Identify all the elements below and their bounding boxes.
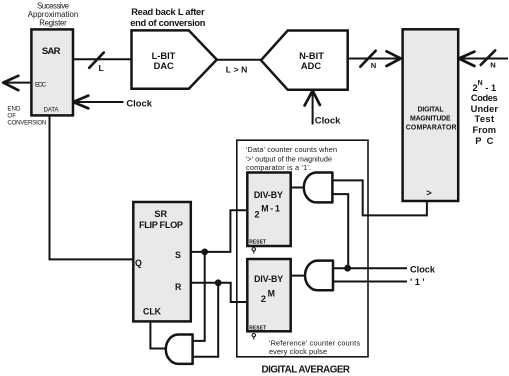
- svg-text:RESET: RESET: [249, 240, 266, 246]
- svg-text:DIGITAL AVERAGER: DIGITAL AVERAGER: [262, 364, 351, 375]
- svg-text:M - 1: M - 1: [261, 204, 280, 214]
- svg-text:L > N: L > N: [226, 64, 248, 74]
- svg-text:N: N: [490, 61, 495, 70]
- svg-text:L: L: [99, 63, 104, 73]
- svg-text:Under: Under: [471, 104, 499, 114]
- svg-text:DATA: DATA: [44, 107, 60, 114]
- svg-text:comparator is a '1'.: comparator is a '1'.: [246, 163, 311, 172]
- svg-text:N: N: [371, 61, 376, 70]
- svg-text:S: S: [175, 250, 181, 260]
- svg-text:ADC: ADC: [301, 61, 321, 71]
- svg-text:FLIP FLOP: FLIP FLOP: [139, 220, 183, 230]
- svg-text:From: From: [473, 125, 497, 135]
- svg-text:Clock: Clock: [126, 97, 152, 108]
- svg-text:Q: Q: [135, 258, 142, 268]
- svg-text:>: >: [426, 187, 432, 198]
- svg-text:Codes: Codes: [471, 93, 498, 103]
- svg-text:RESET: RESET: [249, 326, 266, 332]
- svg-text:SAR: SAR: [42, 46, 61, 57]
- svg-text:' 1 ': ' 1 ': [410, 277, 425, 287]
- svg-text:'Data' counter counts when: 'Data' counter counts when: [246, 145, 337, 154]
- svg-text:2N - 1: 2N - 1: [472, 80, 496, 93]
- svg-text:SR: SR: [154, 209, 167, 219]
- svg-text:MAGNITUDE: MAGNITUDE: [410, 116, 451, 123]
- svg-text:2: 2: [254, 208, 259, 219]
- svg-text:Register: Register: [39, 18, 67, 27]
- svg-text:Clock: Clock: [410, 265, 436, 275]
- svg-text:L-BIT: L-BIT: [152, 51, 176, 61]
- svg-text:DIV-BY: DIV-BY: [254, 190, 283, 200]
- svg-text:DIV-BY: DIV-BY: [254, 274, 283, 284]
- svg-text:OF: OF: [7, 112, 16, 119]
- svg-text:COMPARATOR: COMPARATOR: [406, 124, 457, 131]
- svg-text:M: M: [268, 288, 275, 298]
- svg-text:Clock: Clock: [315, 115, 341, 126]
- svg-text:2: 2: [261, 293, 266, 304]
- svg-text:every clock pulse: every clock pulse: [269, 347, 327, 356]
- svg-text:CLK: CLK: [143, 306, 162, 316]
- svg-text:end of conversion: end of conversion: [130, 18, 205, 28]
- svg-text:Test: Test: [475, 114, 495, 124]
- svg-text:R: R: [175, 282, 182, 292]
- svg-text:DAC: DAC: [154, 61, 174, 71]
- svg-text:DIGITAL: DIGITAL: [418, 107, 444, 114]
- svg-text:N-BIT: N-BIT: [299, 51, 324, 61]
- svg-text:EOC: EOC: [35, 81, 47, 88]
- svg-text:Read back L after: Read back L after: [131, 7, 205, 17]
- svg-text:CONVERSION: CONVERSION: [7, 119, 46, 126]
